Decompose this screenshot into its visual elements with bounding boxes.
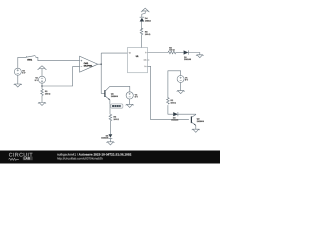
svg-text:SW1: SW1 — [27, 58, 33, 61]
svg-text:1N4148: 1N4148 — [171, 119, 179, 122]
svg-text:100 Ω: 100 Ω — [45, 92, 51, 95]
svg-text:100 Ω: 100 Ω — [145, 33, 151, 36]
svg-text:LAB: LAB — [24, 157, 31, 161]
svg-text:100 Ω: 100 Ω — [114, 118, 120, 121]
svg-text:1N4148: 1N4148 — [184, 58, 192, 61]
svg-text:100 Ω: 100 Ω — [171, 101, 177, 104]
svg-text:MCP601: MCP601 — [84, 65, 93, 68]
svg-text:1N914: 1N914 — [145, 20, 152, 23]
svg-text:100 Ω: 100 Ω — [169, 49, 175, 52]
svg-text:2N3904: 2N3904 — [197, 120, 205, 123]
svg-text:2N3904: 2N3904 — [111, 95, 119, 98]
svg-text:http://circuitlab.com/c8379kxn: http://circuitlab.com/c8379kxnsb2k — [57, 157, 103, 161]
svg-text:1N4148: 1N4148 — [101, 137, 109, 140]
